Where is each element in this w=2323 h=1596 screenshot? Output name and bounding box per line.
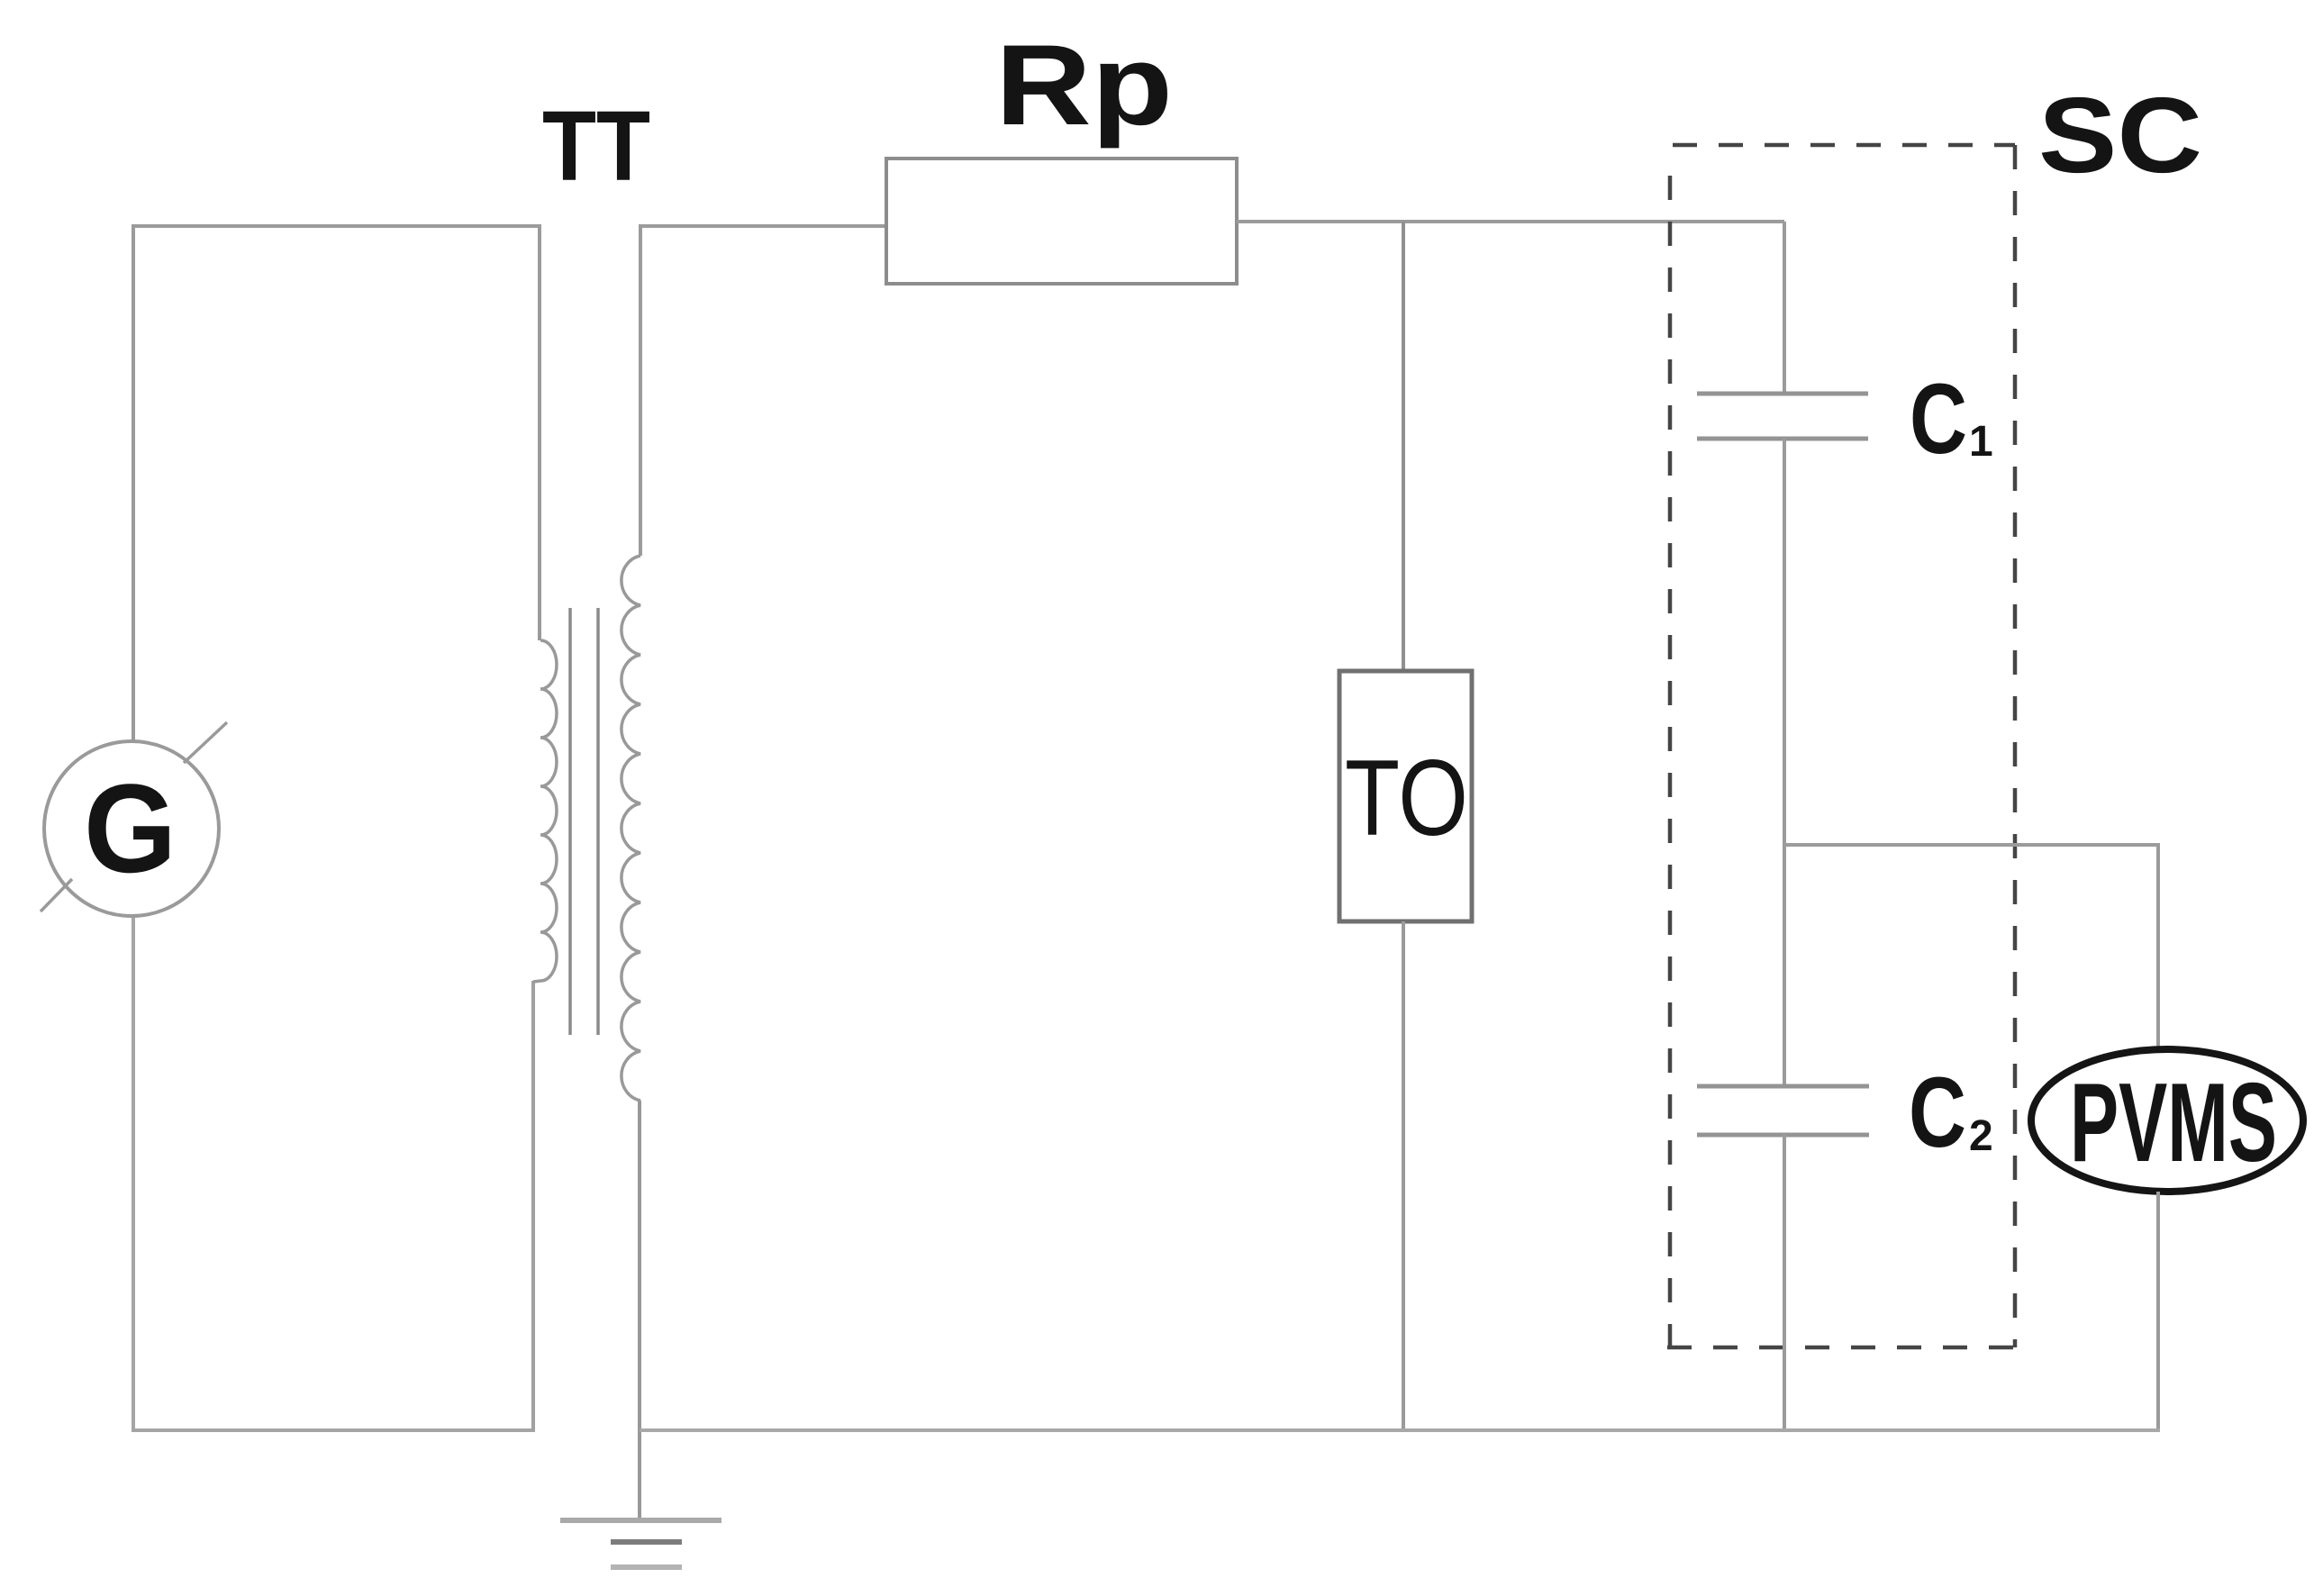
transformer TT core [570,608,598,1035]
svg-text:PVMS: PVMS [2070,1061,2277,1185]
svg-text:TO: TO [1345,738,1468,858]
divider box SC (dashed) [1667,145,2015,1347]
label SC [2038,76,2202,195]
wire bottom net [640,1428,2160,1432]
wire left-loop top (G to transformer primary) [133,226,540,741]
wire top net down to C1 [1783,222,1786,394]
wire C2 bottom [1783,1135,1786,1430]
wire transformer secondary bottom to ground node [638,1101,641,1519]
wire PVMS bottom [2156,1192,2160,1430]
measuring system PVMS [2031,1049,2303,1192]
svg-text:G: G [84,757,177,899]
wire transformer secondary top to Rp [640,226,888,556]
wire TO bottom [1402,921,1405,1430]
label TO [1345,738,1468,858]
svg-text:C: C [1909,1057,1966,1168]
svg-text:C: C [1910,364,1967,475]
transformer TT primary winding [533,640,557,982]
capacitor C2 [1697,1086,1869,1135]
capacitor C1 [1697,394,1868,439]
svg-text:Rp: Rp [995,21,1173,149]
wire C1 to C2 (divider midpoint) [1783,439,1786,1086]
resistor Rp [886,159,1237,284]
generator G [41,722,227,916]
svg-text:TT: TT [542,91,650,202]
svg-text:2: 2 [1969,1112,1993,1160]
label G [84,757,177,899]
transformer TT secondary winding [622,556,640,1101]
svg-text:1: 1 [1969,418,1993,466]
wire divider midpoint to PVMS [1784,845,2158,1049]
label C1 [1910,364,1993,475]
ground [560,1520,721,1567]
label TT [542,91,650,202]
wire Rp right to SC branch (top net) [1237,220,1784,223]
wire transformer primary bottom [531,981,535,1430]
svg-text:SC: SC [2038,76,2202,195]
test object TO [1339,671,1472,921]
label C2 [1909,1057,1993,1168]
label PVMS [2070,1061,2277,1185]
wire G bottom to bottom-left corner [133,916,535,1430]
label Rp [995,21,1173,149]
wire top net to TO [1402,222,1405,671]
